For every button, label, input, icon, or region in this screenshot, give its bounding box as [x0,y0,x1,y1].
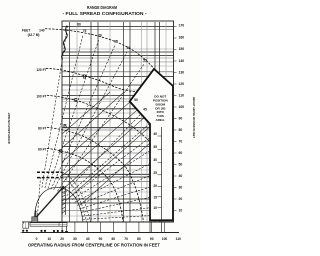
svg-text:HEIGHT ABOVE GROUND IN FEET: HEIGHT ABOVE GROUND IN FEET [192,97,196,138]
svg-text:120 FT: 120 FT [36,68,46,72]
svg-text:B: B [63,124,67,130]
svg-text:AREA.: AREA. [155,118,165,122]
svg-text:110: 110 [176,237,181,241]
truck: boom [34,186,64,220]
svg-text:15: 15 [153,196,157,200]
svg-text:100: 100 [179,105,185,109]
svg-text:20: 20 [153,184,157,188]
bottom axis band [22,221,174,223]
svg-text:0: 0 [36,237,38,241]
svg-text:80: 80 [77,23,81,27]
svg-text:- FULL SPREAD CONFIGURATION -: - FULL SPREAD CONFIGURATION - [63,11,147,16]
svg-text:35: 35 [153,145,157,149]
title [63,5,147,16]
svg-text:30: 30 [73,237,77,241]
svg-text:20: 20 [179,197,183,201]
svg-text:110: 110 [179,94,185,98]
svg-text:60: 60 [127,46,131,50]
svg-text:140: 140 [39,29,45,33]
svg-text:60 FT: 60 FT [38,147,46,151]
svg-text:50: 50 [179,163,183,167]
svg-text:80: 80 [179,128,183,132]
svg-text:65: 65 [114,39,118,43]
mast [35,212,37,219]
retracted boom arc (solid) [35,187,84,222]
svg-text:10: 10 [47,237,51,241]
left arc labels [22,29,47,152]
svg-text:50: 50 [134,98,138,102]
svg-text:100 FT: 100 FT [36,94,46,98]
svg-text:40: 40 [179,174,183,178]
svg-text:BOOM LENGTH IN FEET: BOOM LENGTH IN FEET [7,112,11,143]
white note polygon [130,69,173,220]
road line under truck [21,231,69,233]
svg-text:C: C [74,98,78,104]
hook block hatched [62,186,65,215]
svg-text:75: 75 [83,29,87,33]
horizontal gridlines dark [62,27,174,204]
svg-text:80 FT: 80 FT [38,126,46,130]
svg-text:10: 10 [153,206,157,210]
svg-text:30: 30 [179,186,183,190]
truck body [23,217,67,228]
pedestal [32,217,38,223]
svg-text:70: 70 [124,237,128,241]
svg-text:40: 40 [153,132,157,136]
right axis numbers [179,24,185,213]
svg-text:45: 45 [143,107,147,111]
bed [30,223,67,227]
svg-text:90: 90 [150,237,154,241]
svg-text:130: 130 [179,71,185,75]
svg-text:10: 10 [179,209,183,213]
arc letters [58,75,87,155]
svg-text:90: 90 [179,117,183,121]
svg-text:55: 55 [143,59,147,63]
rear outrigger [66,227,68,232]
note text [153,95,169,122]
vertical gridlines [70,22,167,222]
svg-text:170: 170 [179,24,185,28]
svg-text:120: 120 [179,82,185,86]
outrigger beams on bed [58,223,60,227]
svg-text:50: 50 [99,237,103,241]
cab [23,222,29,228]
bottom axis numbers [36,237,182,241]
svg-text:140: 140 [179,59,185,63]
svg-text:70: 70 [98,34,102,38]
svg-text:80: 80 [137,237,141,241]
svg-text:60: 60 [111,237,115,241]
svg-text:25: 25 [153,171,157,175]
inner vertical line + angle labels inside box [161,127,163,233]
parallel solid diagonals (scan artifact family) [62,92,150,205]
plot frame [62,21,174,222]
boom angle labels along arc [77,23,147,112]
svg-text:(42.7 M): (42.7 M) [28,33,40,37]
wheels [22,230,63,233]
svg-text:D: D [83,75,87,81]
svg-text:160: 160 [179,35,185,39]
svg-text:70: 70 [179,140,183,144]
boom angle lines (dashed, radiating from pivot, starting at minimum-radius arc) [38,26,153,219]
svg-text:OPERATING RADIUS FROM CENTERLI: OPERATING RADIUS FROM CENTERLINE OF ROTA… [28,243,160,248]
svg-text:20: 20 [60,237,64,241]
boom length arcs (dashed) [45,29,154,222]
svg-text:150: 150 [179,47,185,51]
horizontal gridlines medium [62,30,174,216]
svg-text:60: 60 [179,151,183,155]
right axis ticks [174,27,177,211]
svg-text:40: 40 [86,237,90,241]
svg-text:A: A [58,149,62,155]
small arcs dark dashed tails [37,172,62,177]
svg-text:30: 30 [153,158,157,162]
svg-text:100: 100 [162,237,168,241]
dark squiggle at max-angle line top [62,26,68,61]
